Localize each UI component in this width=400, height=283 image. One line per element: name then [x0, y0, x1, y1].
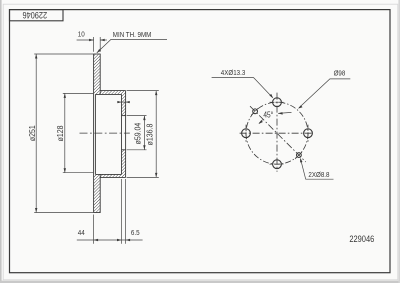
arrow 10 left: [89, 39, 94, 41]
label 2X d8.8 leader: [301, 159, 334, 179]
dim line d251: [35, 54, 37, 213]
svg-text:44: 44: [78, 229, 85, 237]
ext line 6.5 right: [125, 179, 127, 244]
bore top edge: [122, 115, 126, 117]
title block box top-left: [10, 10, 64, 21]
svg-text:ø251: ø251: [27, 125, 37, 141]
svg-text:229046: 229046: [22, 10, 47, 20]
ext line d251 top: [34, 53, 93, 55]
ring bottom edge: [93, 212, 100, 214]
bore bottom edge: [122, 149, 126, 151]
hatch hub wall top: [122, 94, 126, 115]
hatch top flange: [100, 91, 125, 95]
hub wall pointer arrow right: [126, 101, 130, 103]
arrow 44 left: [94, 239, 99, 241]
ext line d59.04 bottom: [127, 149, 147, 151]
ring right edge bottom: [99, 174, 101, 212]
leader MIN TH: [97, 39, 167, 53]
svg-text:4XØ13.3: 4XØ13.3: [221, 69, 246, 77]
tick NW hole: [251, 107, 259, 115]
bolt hole E: [304, 129, 313, 138]
hub wall pointer arrow left: [117, 101, 121, 103]
arrow 10 right: [100, 39, 105, 41]
svg-text:10: 10: [78, 31, 85, 39]
label d98 leader: [299, 79, 350, 108]
page edge shading bottom: [0, 281, 400, 283]
arrow 45 left: [259, 120, 263, 124]
arrow min th leader: [97, 49, 101, 53]
svg-text:6.5: 6.5: [131, 229, 140, 237]
hatch hub wall bottom: [122, 150, 126, 175]
ring top edge: [93, 53, 100, 55]
arrow d59.04 bottom: [143, 145, 145, 150]
tick S hole: [270, 163, 285, 165]
svg-text:229046: 229046: [349, 233, 374, 244]
horizontal centerline: [240, 132, 314, 134]
flange top inner edge: [95, 93, 121, 95]
arrow d128 bottom: [64, 168, 66, 173]
hatch friction ring top: [94, 54, 101, 94]
arrow d98 leader: [298, 105, 303, 108]
dim line d128: [64, 93, 66, 172]
ext line d136.8 top: [127, 90, 159, 92]
hatch bottom flange: [100, 174, 125, 177]
flange top edge: [100, 90, 125, 92]
svg-text:2XØ8.8: 2XØ8.8: [308, 172, 329, 180]
tick N hole: [270, 101, 285, 103]
arrow d136.8 bottom: [155, 173, 157, 178]
hub outer wall: [125, 91, 127, 178]
small hole NW: [253, 109, 258, 114]
tick SE hole: [295, 151, 303, 159]
bolt hole W: [242, 129, 251, 138]
svg-text:MIN TH. 9MM: MIN TH. 9MM: [113, 32, 152, 40]
diagonal centerline NW-SE: [250, 106, 306, 162]
arrow 45 right: [278, 112, 283, 115]
flange bottom inner edge: [95, 173, 121, 175]
arrow 6.5 right: [126, 239, 131, 241]
dim line 10 left part: [77, 39, 94, 41]
dim line 10 right part: [100, 39, 107, 41]
small hole SE: [297, 153, 302, 158]
ext line d136.8 bottom: [127, 176, 159, 178]
arrow d128 top: [64, 93, 66, 98]
hub wall pointer line: [117, 101, 130, 103]
flange bottom edge: [100, 176, 125, 178]
arrow 4X leader: [269, 94, 273, 98]
arrow d251 bottom: [35, 208, 37, 213]
hatch friction ring bottom: [94, 174, 101, 212]
hub inner wall: [121, 94, 123, 174]
ext line 10 left: [93, 37, 95, 52]
svg-text:ø59.04: ø59.04: [133, 122, 143, 144]
svg-text:ø136.8: ø136.8: [145, 124, 155, 146]
ext line 44/6.5 middle: [121, 179, 123, 244]
dim line d59.04: [143, 116, 145, 150]
arrow d136.8 top: [155, 91, 157, 96]
page edge shading right: [398, 0, 400, 283]
page edge shading left: [0, 0, 2, 283]
arrows: d251 top: [35, 54, 37, 59]
ext line d128 top: [63, 92, 93, 94]
svg-text:45°: 45°: [263, 110, 273, 120]
tick W hole: [245, 125, 247, 142]
dim line 44 and 6.5: [77, 239, 143, 241]
ring outer edge (left): [93, 54, 95, 213]
drum silhouette line: [94, 94, 96, 174]
ext line d251 bottom: [34, 212, 93, 214]
label 4X d13.3 leader: [212, 78, 273, 98]
arrow 2X leader: [300, 158, 302, 163]
arrow d59.04 top: [143, 116, 145, 121]
bolt circle d98: [246, 102, 308, 164]
bolt hole N: [273, 98, 282, 107]
45 deg arc left segment: [259, 120, 263, 124]
bolt hole S: [273, 160, 282, 169]
45 deg arc right segment: [278, 112, 291, 113]
svg-text:ø128: ø128: [55, 125, 65, 141]
tick E hole: [307, 125, 309, 142]
vertical centerline: [276, 93, 278, 172]
section centerline: [80, 132, 130, 134]
ext line 44 left: [93, 215, 95, 244]
dim line d136.8: [155, 91, 157, 178]
ext line d59.04 top: [127, 115, 147, 117]
arrow 44 right / 6.5 left: [117, 239, 122, 241]
ext line 10 right: [99, 37, 101, 52]
svg-text:Ø98: Ø98: [334, 70, 346, 78]
ext line d128 bottom: [63, 172, 93, 174]
ring right edge top: [99, 54, 101, 94]
